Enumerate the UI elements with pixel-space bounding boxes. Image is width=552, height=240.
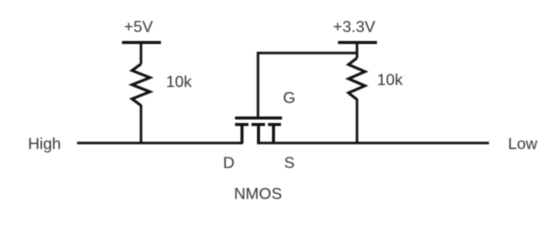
resistor 10k (right pull-up) — [349, 58, 366, 100]
channel segment (drain) — [235, 123, 249, 126]
power +3.3V rail bar — [338, 41, 377, 44]
drain stem — [241, 125, 244, 144]
body stem — [257, 125, 260, 144]
wire: NMOS gate up and over to +3.3V rail — [258, 53, 357, 117]
svg-text:NMOS: NMOS — [234, 186, 282, 203]
channel segment (body) — [252, 123, 266, 126]
power +5V rail bar — [122, 41, 161, 44]
wire: +5V bar to resistor top — [140, 43, 143, 64]
svg-text:10k: 10k — [377, 72, 404, 89]
svg-text:Low: Low — [508, 136, 538, 153]
svg-text:+3.3V: +3.3V — [333, 19, 376, 36]
wire: left resistor bottom to High wire — [140, 105, 143, 143]
resistor 10k (left pull-up) — [132, 64, 150, 106]
svg-text:D: D — [223, 155, 235, 172]
svg-text:High: High — [28, 136, 61, 153]
svg-text:+5V: +5V — [124, 19, 153, 36]
transistor Q1 NMOS — [235, 118, 282, 143]
svg-text:S: S — [284, 155, 295, 172]
channel segment (source) — [268, 123, 281, 126]
wire: NMOS source/body to Low — [257, 142, 489, 145]
wire: right resistor bottom to Low wire — [356, 99, 359, 143]
wire: +3.3V bar to resistor top (through gate-wire junction) — [356, 43, 359, 58]
wire: High to NMOS drain — [77, 142, 243, 145]
svg-text:10k: 10k — [166, 74, 193, 91]
source stem — [272, 125, 275, 144]
svg-text:G: G — [283, 90, 295, 107]
gate plate — [235, 117, 282, 120]
